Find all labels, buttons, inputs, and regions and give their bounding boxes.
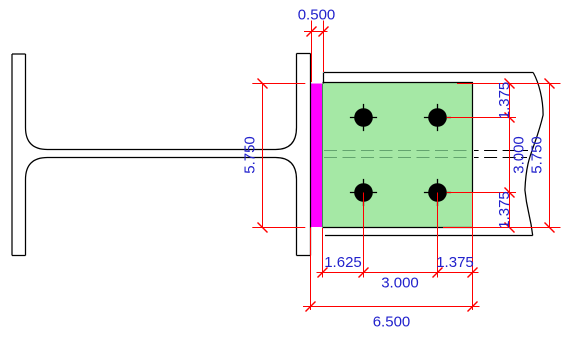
svg-text:3.000: 3.000 [381, 275, 419, 292]
svg-text:1.375: 1.375 [496, 191, 513, 229]
svg-text:1.375: 1.375 [436, 254, 474, 271]
svg-text:5.750: 5.750 [241, 136, 258, 174]
svg-text:5.750: 5.750 [529, 136, 546, 174]
svg-text:1.375: 1.375 [496, 82, 513, 120]
svg-text:1.625: 1.625 [324, 254, 362, 271]
svg-text:0.500: 0.500 [298, 7, 336, 24]
svg-text:6.500: 6.500 [373, 314, 411, 331]
svg-text:3.000: 3.000 [511, 136, 528, 174]
